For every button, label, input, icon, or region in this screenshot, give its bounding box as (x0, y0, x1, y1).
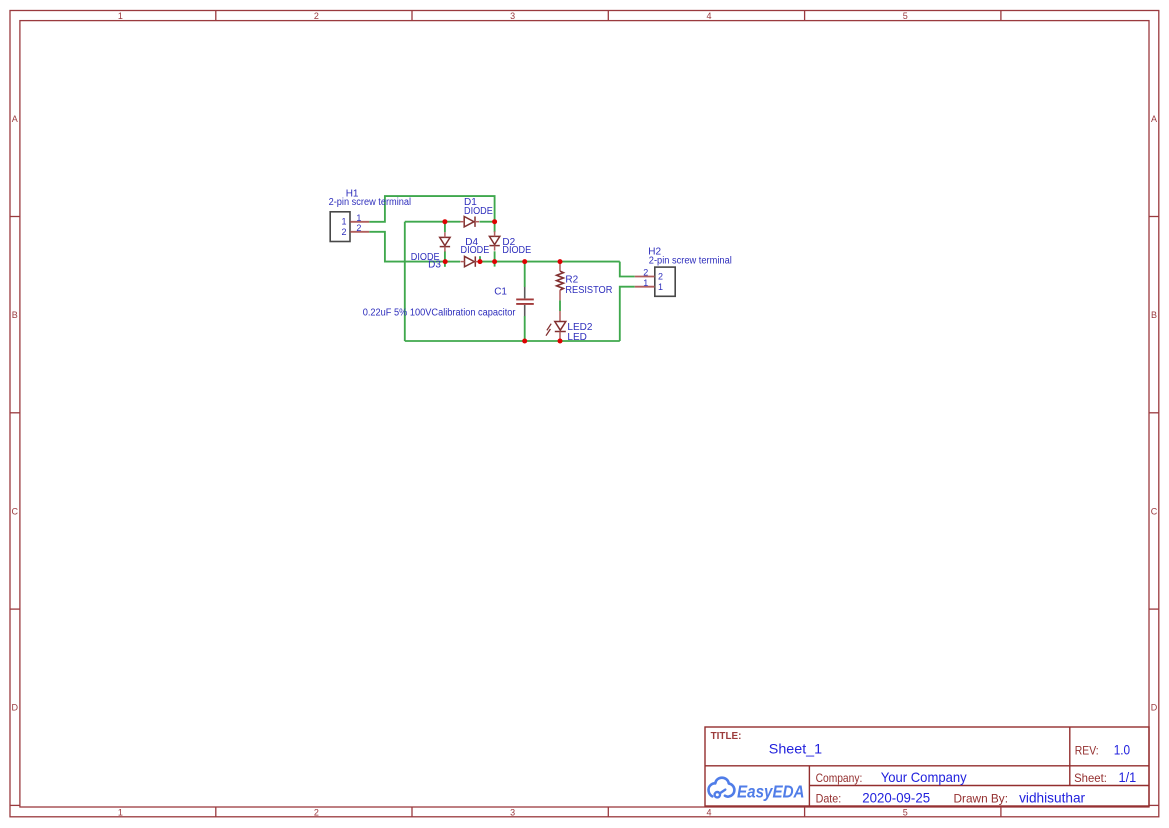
diode D1 (464, 217, 475, 227)
diode D3 (440, 237, 450, 246)
svg-text:5: 5 (903, 807, 908, 817)
svg-text:2: 2 (314, 807, 319, 817)
svg-text:C1: C1 (494, 286, 507, 297)
junction D4 cathode (478, 259, 483, 264)
svg-text:Company:: Company: (816, 771, 863, 785)
svg-text:EasyEDA: EasyEDA (737, 781, 805, 801)
H2 pin 1 (635, 286, 655, 288)
junction D2 bottom (492, 259, 497, 264)
wire D1 cathode stub (479, 221, 494, 223)
svg-text:1/1: 1/1 (1119, 769, 1137, 785)
wire H1 pin2 down to bridge AC rail (369, 232, 445, 262)
svg-text:2-pin screw terminal: 2-pin screw terminal (649, 256, 732, 267)
svg-text:2-pin screw terminal: 2-pin screw terminal (329, 197, 412, 208)
wire bottom rail (405, 340, 620, 342)
svg-text:2: 2 (643, 268, 648, 278)
wire D3 top stub (444, 222, 446, 233)
wire D4 anode stub (445, 261, 460, 263)
wire left vertical to bottom rail (404, 222, 406, 341)
svg-text:3: 3 (510, 807, 515, 817)
capacitor C1 (516, 287, 534, 316)
svg-text:Your Company: Your Company (881, 769, 967, 785)
svg-text:B: B (12, 310, 18, 320)
svg-text:REV:: REV: (1075, 744, 1099, 758)
junction D1 cathode / D2 top (492, 219, 497, 224)
H1 pin 1 (350, 221, 369, 223)
wire D1 anode stub (445, 221, 461, 223)
svg-text:DIODE: DIODE (464, 206, 493, 217)
svg-text:1: 1 (118, 11, 123, 21)
svg-text:DIODE: DIODE (461, 245, 490, 256)
svg-text:1: 1 (341, 217, 346, 227)
svg-text:4: 4 (706, 807, 711, 817)
wire H1 pin1 up and over to D1 cathode node (369, 196, 494, 222)
wire C1 bottom lead (524, 316, 526, 341)
svg-text:1: 1 (643, 278, 648, 288)
junction R2 top (558, 259, 563, 264)
svg-text:2: 2 (658, 272, 663, 282)
svg-text:1: 1 (356, 213, 361, 223)
svg-text:C: C (11, 506, 18, 516)
svg-text:DIODE: DIODE (502, 245, 531, 256)
svg-text:2020-09-25: 2020-09-25 (862, 789, 930, 805)
wire H2 pin1 down to bottom rail (620, 287, 635, 341)
svg-text:vidhisuthar: vidhisuthar (1019, 789, 1085, 805)
svg-text:Drawn By:: Drawn By: (954, 791, 1009, 805)
wire D2 top stub (494, 222, 496, 233)
svg-text:5: 5 (903, 11, 908, 21)
wire positive rail to H2 (480, 261, 620, 263)
wire R2 to LED2 (559, 300, 561, 311)
svg-text:2: 2 (356, 223, 361, 233)
svg-text:RESISTOR: RESISTOR (565, 285, 612, 296)
wire rail corner down to H2 pin2 (620, 262, 635, 277)
svg-text:D3: D3 (428, 260, 441, 271)
svg-text:1.0: 1.0 (1114, 742, 1131, 758)
svg-text:A: A (12, 114, 18, 124)
svg-text:3: 3 (510, 11, 515, 21)
svg-text:0.22uF 5% 100VCalibration capa: 0.22uF 5% 100VCalibration capacitor (363, 307, 516, 318)
wire stub above D4 cathode node (479, 256, 481, 261)
junction LED2 bottom (558, 339, 563, 344)
connector H2 2-pin screw terminal (655, 267, 675, 296)
LED LED2 (546, 311, 566, 341)
svg-text:C: C (1151, 506, 1158, 516)
junction D1 anode / D3 top (442, 219, 447, 224)
svg-text:R2: R2 (565, 275, 578, 286)
wire D3 bottom stub (444, 251, 446, 266)
diode D2 (489, 236, 499, 245)
wire D2 bottom stub (494, 251, 496, 266)
svg-text:4: 4 (706, 11, 711, 21)
wire bridge top-left horizontal (405, 221, 445, 223)
junction C1 bottom (522, 339, 527, 344)
svg-text:Date:: Date: (816, 791, 842, 805)
wire C1 top lead (524, 262, 526, 287)
diode D4 (465, 256, 476, 266)
H2 pin 2 (635, 276, 655, 278)
svg-text:Sheet:: Sheet: (1074, 771, 1107, 785)
resistor R2 (557, 262, 564, 301)
svg-text:Sheet_1: Sheet_1 (769, 741, 823, 757)
svg-text:1: 1 (658, 282, 663, 292)
svg-text:B: B (1151, 310, 1157, 320)
junction AC rail / D3 bottom / D4 anode (443, 259, 448, 264)
svg-text:D: D (1151, 703, 1158, 713)
svg-text:D: D (11, 703, 18, 713)
connector H1 2-pin screw terminal (330, 212, 350, 242)
svg-text:TITLE:: TITLE: (711, 731, 742, 742)
svg-text:A: A (1151, 114, 1157, 124)
svg-text:LED: LED (567, 332, 586, 343)
svg-text:1: 1 (118, 807, 123, 817)
junction C1 top (522, 259, 527, 264)
H1 pin 2 (350, 231, 369, 233)
svg-text:2: 2 (341, 227, 346, 237)
svg-text:2: 2 (314, 11, 319, 21)
